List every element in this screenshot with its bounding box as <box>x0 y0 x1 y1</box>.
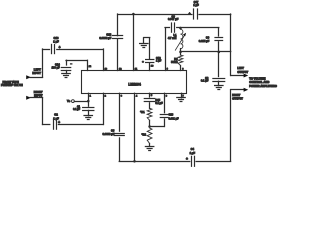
capacitor C17 1uF output coupling <box>193 9 195 19</box>
wire rail to left output <box>199 14 231 16</box>
wire pin 5 to C15 <box>149 93 151 97</box>
capacitor C2 1uF <box>53 120 55 129</box>
svg-text:POWER AMPLIFIERS: POWER AMPLIFIERS <box>249 84 277 88</box>
svg-text:+: + <box>142 60 144 64</box>
resistor R1 <box>147 108 152 120</box>
svg-text:10: 10 <box>151 65 154 67</box>
wire pin 7 to ground <box>181 93 183 98</box>
svg-text:+: + <box>186 157 188 161</box>
wire rail to right output <box>196 161 231 163</box>
op-amp U1 LM1894 IC box <box>82 71 187 94</box>
svg-text:5: 5 <box>151 95 153 97</box>
node junction pin 11 on rail <box>132 13 135 16</box>
svg-text:0.047 μF: 0.047 μF <box>168 17 179 21</box>
svg-text:1: 1 <box>90 95 92 97</box>
svg-text:TO VOLUME: TO VOLUME <box>249 76 265 80</box>
svg-text:−: − <box>70 62 72 66</box>
svg-text:OUTPUT: OUTPUT <box>237 70 248 74</box>
svg-text:0.1 μF: 0.1 μF <box>73 108 80 111</box>
svg-text:100 μF: 100 μF <box>52 66 60 69</box>
node junction pin 1 <box>87 100 90 103</box>
wire left input vertical <box>42 49 44 77</box>
capacitor C8 0.047uF <box>165 27 170 29</box>
wire V+ to pin 1 <box>74 101 88 103</box>
svg-text:0.015 μF: 0.015 μF <box>199 39 210 43</box>
svg-text:0.1 μF: 0.1 μF <box>201 79 209 83</box>
svg-text:0.1 μF: 0.1 μF <box>155 102 163 105</box>
node: V+ supply terminal <box>72 100 75 103</box>
svg-text:C2: C2 <box>54 113 58 117</box>
capacitor C10 1uF <box>51 44 53 53</box>
node junction tank bottom <box>218 51 221 54</box>
svg-text:C9: C9 <box>206 35 210 39</box>
ground at C14 <box>66 71 68 74</box>
node junction pin 4 on rail <box>133 160 136 163</box>
svg-text:LM1894: LM1894 <box>128 82 141 86</box>
ground at C1 <box>88 110 90 115</box>
capacitor C9 0.015uF tank cap <box>218 28 220 36</box>
capacitor C12 0.0033uF <box>113 35 123 37</box>
ground at C6 <box>218 81 220 85</box>
wire C12 to top rail <box>117 14 119 36</box>
wire C8 junction to C9 <box>181 27 219 29</box>
node junction L1 top <box>179 27 182 30</box>
wire top rail <box>118 14 192 16</box>
wire pin 12 to C12 <box>117 39 119 71</box>
svg-text:OUTPUT: OUTPUT <box>232 97 243 101</box>
capacitor C6 0.1uF control filter <box>218 52 220 77</box>
wire tank line <box>181 51 231 53</box>
wire C16 top to ground tap <box>149 38 151 60</box>
wire to C10 <box>43 49 50 51</box>
svg-text:RIGHT: RIGHT <box>232 93 240 97</box>
ground at R2 <box>149 144 151 147</box>
capacitor C16 1uF on pin 10 <box>149 63 151 71</box>
resistor R6 560 <box>180 52 182 55</box>
svg-text:+: + <box>189 12 191 16</box>
wire pin 3 down <box>119 93 121 131</box>
wire pin 14 up and left <box>87 60 89 70</box>
wire to C2 <box>43 124 50 126</box>
svg-text:2: 2 <box>105 95 107 97</box>
svg-text:C12: C12 <box>106 32 111 36</box>
svg-text:1 μF: 1 μF <box>190 151 196 155</box>
svg-text:*R2: *R2 <box>142 132 147 136</box>
inductor L1 4.7mH adjustable <box>181 29 183 48</box>
wire C15 to R1 <box>149 103 151 109</box>
ground at C16 top <box>143 38 145 43</box>
svg-text:C4: C4 <box>191 147 195 151</box>
svg-text:560Ω: 560Ω <box>171 60 177 64</box>
wire pin 11 <box>133 14 135 71</box>
capacitor C4 1uF output coupling <box>191 156 193 166</box>
svg-text:1 μF: 1 μF <box>156 60 162 63</box>
svg-text:LEFT: LEFT <box>237 66 244 70</box>
wire C10 to pin 13 <box>57 49 104 51</box>
svg-text:V+: V+ <box>67 99 71 103</box>
svg-text:C13: C13 <box>169 113 174 116</box>
wire pin 6 to C13 <box>164 93 166 113</box>
wire pin 1 <box>88 93 90 106</box>
svg-text:*R1: *R1 <box>140 110 145 114</box>
resistor R2 <box>147 128 152 144</box>
svg-text:0.0033 μF: 0.0033 μF <box>99 36 111 40</box>
wire C13 to junction <box>164 119 166 127</box>
svg-text:1 μF: 1 μF <box>53 40 59 44</box>
svg-text:C10: C10 <box>54 36 59 40</box>
svg-text:CONTROL AND: CONTROL AND <box>249 80 269 84</box>
wire C2 to pin 2 <box>58 124 103 126</box>
svg-text:4.7 mH: 4.7 mH <box>168 36 177 40</box>
capacitor C13 0.001uF <box>160 114 168 116</box>
svg-text:INPUT: INPUT <box>32 71 41 75</box>
wire bottom rail <box>119 161 190 163</box>
svg-text:4: 4 <box>136 94 138 97</box>
svg-text:6: 6 <box>166 95 168 97</box>
svg-text:0.001 μF: 0.001 μF <box>169 117 179 120</box>
wire C3 to bottom rail <box>119 138 121 161</box>
svg-text:INPUT: INPUT <box>34 94 43 98</box>
capacitor C14 100uF <box>66 60 68 65</box>
capacitor C15 0.1uF <box>144 98 155 100</box>
wire pin 9 up <box>165 28 167 71</box>
wire right input vertical <box>42 98 44 125</box>
node junction L1 bottom <box>179 51 182 54</box>
capacitor C1 0.1uF supply bypass <box>83 107 94 109</box>
capacitor C3 0.0033uF <box>114 133 124 135</box>
ground at pin 7 <box>177 97 185 99</box>
svg-text:14: 14 <box>89 65 92 68</box>
wire L1 to tank line <box>180 49 182 52</box>
svg-text:1 μF: 1 μF <box>193 3 199 7</box>
node: LEFT INPUT terminal <box>26 75 31 79</box>
node junction R1 R2 C13 <box>148 125 151 128</box>
svg-text:0.0033 μF: 0.0033 μF <box>102 132 114 136</box>
node: LEFT OUTPUT terminal <box>231 75 244 77</box>
wire pin 4 <box>134 93 136 161</box>
node: RIGHT OUTPUT terminal <box>231 89 244 91</box>
node: RIGHT INPUT terminal <box>26 96 31 100</box>
svg-text:3: 3 <box>121 95 123 97</box>
svg-text:C3: C3 <box>111 129 115 133</box>
svg-text:PREAMP OR FM: PREAMP OR FM <box>1 83 23 87</box>
